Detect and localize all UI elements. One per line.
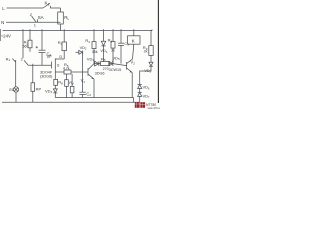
diode VD5r — [149, 62, 153, 66]
svg-text:C3: C3 — [124, 41, 129, 47]
bottom rail A — [2, 101, 140, 103]
resistor RL — [58, 12, 64, 24]
svg-text:VD3: VD3 — [87, 56, 95, 62]
switch SA — [32, 16, 38, 22]
svg-text:VF: VF — [47, 54, 53, 59]
wire — [93, 29, 95, 41]
wire — [150, 55, 152, 62]
svg-text:RP: RP — [36, 86, 42, 91]
svg-text:V1: V1 — [81, 78, 86, 84]
svg-text:VD4: VD4 — [45, 88, 53, 94]
svg-text:R3: R3 — [85, 38, 90, 44]
svg-text:3CW15: 3CW15 — [109, 68, 122, 72]
svg-text:(3DG6): (3DG6) — [40, 75, 53, 79]
wire — [110, 63, 114, 65]
wire — [133, 29, 135, 36]
svg-text:VD1: VD1 — [100, 48, 108, 54]
svg-text:K1: K1 — [45, 1, 50, 7]
bottom rail B — [55, 97, 133, 99]
svg-text:R8: R8 — [58, 80, 63, 86]
svg-text:~24V: ~24V — [1, 33, 11, 38]
wire — [54, 85, 56, 89]
svg-text:R4: R4 — [58, 40, 63, 46]
svg-text:D: D — [59, 54, 62, 59]
wire — [93, 49, 95, 64]
wire right branch — [151, 30, 152, 46]
diode VD2 — [76, 50, 83, 54]
svg-text:C2: C2 — [86, 91, 91, 97]
jfet VF — [52, 59, 65, 70]
relay K coil — [128, 36, 140, 44]
svg-text:3DG6: 3DG6 — [95, 72, 105, 76]
wire — [71, 71, 88, 73]
svg-text:2k: 2k — [144, 50, 148, 54]
resistor R8 — [54, 79, 58, 85]
resistor R3 — [92, 42, 96, 49]
wire — [140, 66, 151, 84]
svg-text:36k: 36k — [92, 50, 98, 54]
diode VD3 — [94, 61, 101, 66]
right border line — [157, 0, 159, 103]
diode VD6 — [138, 84, 142, 92]
resistor R5b — [101, 62, 110, 66]
transistor V1 — [88, 64, 94, 79]
zener VD5 — [109, 61, 127, 66]
transistor V2 — [127, 59, 133, 73]
svg-text:VD5: VD5 — [112, 55, 120, 61]
svg-text:RL: RL — [64, 15, 69, 21]
svg-text:R7: R7 — [69, 80, 74, 86]
switch S2 lever — [24, 60, 28, 65]
capacitor C2 — [79, 92, 85, 94]
wire — [63, 29, 65, 42]
wire drain — [63, 51, 65, 59]
wire — [22, 29, 24, 58]
wire source — [55, 71, 64, 73]
top rail — [3, 30, 153, 32]
wire gate — [28, 64, 51, 66]
lamp EL — [12, 59, 18, 103]
capacitor C3 — [118, 29, 124, 63]
wire emitter — [93, 79, 95, 98]
svg-text:SA: SA — [38, 15, 45, 20]
resistor R7b — [70, 74, 74, 98]
resistor R4 — [62, 42, 66, 51]
svg-text:3k: 3k — [111, 49, 115, 53]
diode VD7 — [138, 92, 142, 102]
resistor R6 — [111, 29, 115, 63]
svg-text:V2: V2 — [130, 60, 135, 66]
diode VD1 — [101, 29, 105, 61]
wire — [41, 53, 43, 66]
wire collector V2 — [133, 44, 134, 59]
svg-text:R5: R5 — [101, 56, 106, 62]
svg-text:560: 560 — [23, 44, 29, 48]
svg-text:S: S — [57, 62, 60, 67]
resistor R7a — [65, 74, 69, 98]
wire N input — [6, 21, 61, 23]
left border mark — [0, 29, 2, 41]
svg-text:NT780: NT780 — [146, 103, 156, 107]
svg-text:L: L — [2, 6, 5, 11]
watermark red blocks — [135, 102, 163, 110]
resistor R9 — [149, 46, 153, 56]
wire — [82, 95, 84, 98]
potentiometer RP — [31, 64, 35, 103]
diode VD4 — [53, 89, 57, 98]
svg-text:4.7k: 4.7k — [63, 67, 70, 71]
resistor R5 — [64, 70, 71, 74]
svg-text:www.nt78.com: www.nt78.com — [148, 107, 160, 110]
wire — [41, 29, 43, 50]
wire — [60, 8, 62, 12]
wire — [54, 70, 56, 80]
svg-text:R6: R6 — [108, 38, 113, 44]
wire L input — [7, 7, 44, 9]
wire — [82, 52, 84, 92]
svg-text:N: N — [1, 20, 4, 25]
wire emitter V2 — [131, 73, 133, 98]
wire — [133, 98, 135, 103]
capacitor C1 — [36, 46, 46, 53]
wire — [60, 24, 62, 31]
svg-text:EL: EL — [9, 87, 15, 92]
switch K1 — [43, 3, 61, 8]
svg-text:R1: R1 — [6, 56, 11, 62]
resistor R2 — [28, 29, 32, 52]
